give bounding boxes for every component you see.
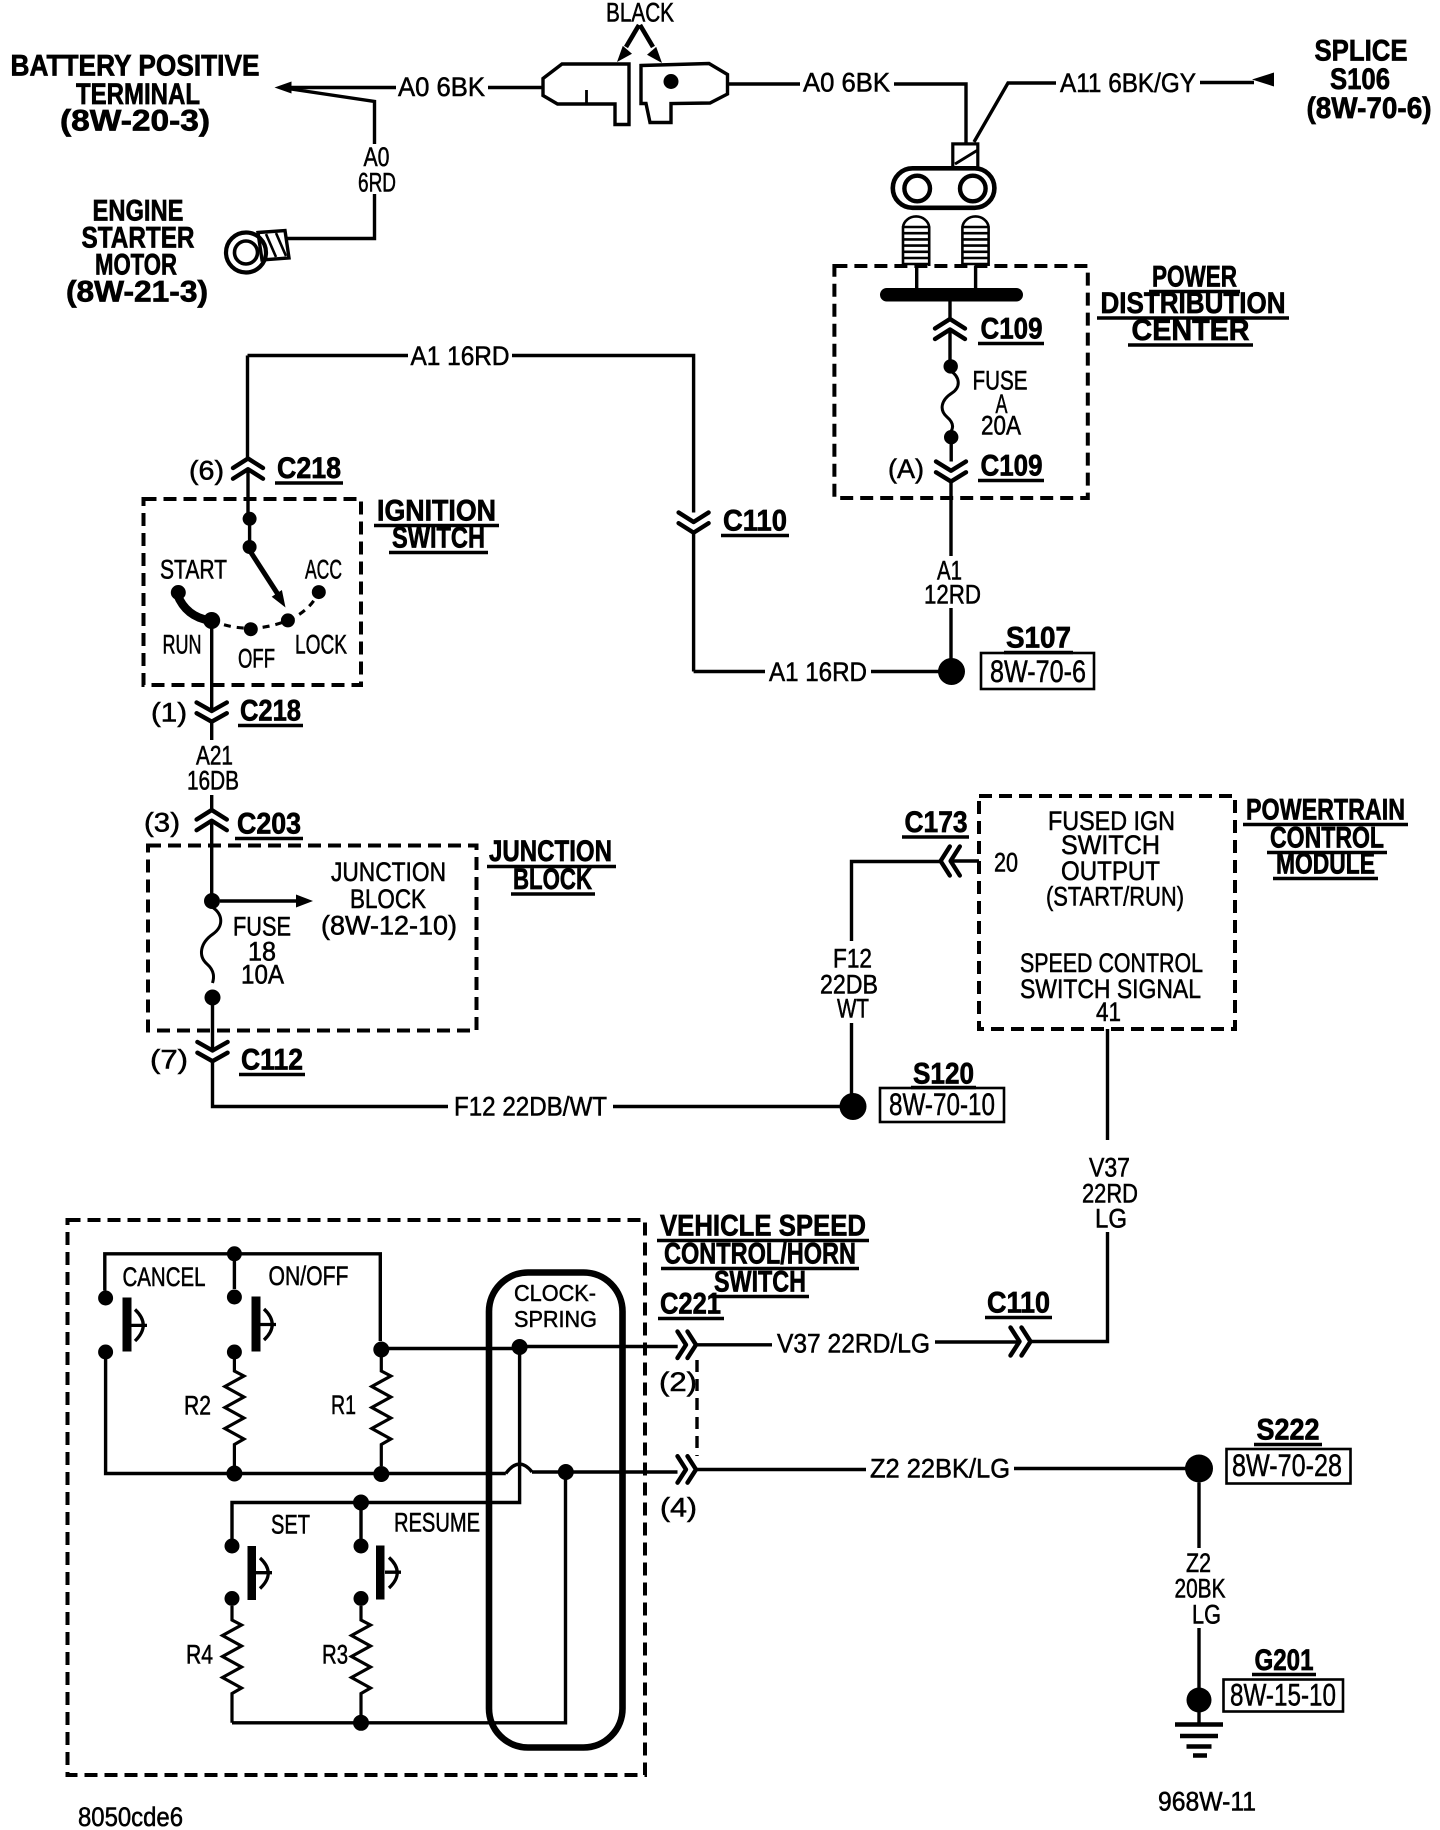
wire Z2 20BK LG <box>1197 1483 1200 1549</box>
node LOCK contact <box>281 613 295 627</box>
svg-text:C112: C112 <box>241 1044 303 1077</box>
resistor R3 <box>352 1606 371 1723</box>
svg-text:968W-11: 968W-11 <box>1158 1787 1256 1817</box>
svg-text:RESUME: RESUME <box>394 1508 480 1538</box>
ignition wiper arrow <box>250 551 279 596</box>
vehicle speed control switch dashed box <box>68 1220 646 1775</box>
svg-text:CENTER: CENTER <box>1132 314 1250 347</box>
reference box 8W-15-10 <box>1224 1680 1344 1712</box>
svg-text:41: 41 <box>1096 997 1121 1027</box>
svg-text:OFF: OFF <box>238 644 275 674</box>
svg-text:MODULE: MODULE <box>1276 848 1375 881</box>
wire V37 22RD/LG <box>935 1340 1020 1343</box>
svg-text:C110: C110 <box>723 505 787 538</box>
wire F12 22DB/WT <box>213 1061 449 1106</box>
node OFF contact <box>244 622 258 636</box>
wire A0 6RD to starter <box>285 194 375 239</box>
svg-text:(8W-70-6): (8W-70-6) <box>1307 92 1432 125</box>
wire into S107 <box>871 670 940 673</box>
junction block dashed box <box>148 846 477 1031</box>
svg-text:WT: WT <box>837 994 869 1024</box>
svg-text:10A: 10A <box>241 960 284 990</box>
node START contact <box>171 585 186 600</box>
bus bar <box>880 288 1023 302</box>
svg-text:16DB: 16DB <box>187 766 239 796</box>
wire A11 6BK/GY <box>974 83 1056 142</box>
wire to C173 <box>852 862 941 942</box>
wire A0 6RD diagonal <box>291 89 375 144</box>
wire into S120 <box>613 1105 840 1108</box>
arrowhead to splice S106 <box>1252 73 1274 87</box>
svg-text:A0 6BK: A0 6BK <box>803 68 890 98</box>
lower rail wire <box>232 1472 566 1723</box>
svg-text:20: 20 <box>994 848 1018 878</box>
svg-text:8W-15-10: 8W-15-10 <box>1230 1677 1336 1713</box>
clockspring outline <box>489 1273 623 1748</box>
ground G201 <box>1187 1688 1212 1713</box>
wire C109 to fuse <box>948 330 951 361</box>
svg-text:A1 16RD: A1 16RD <box>411 341 510 371</box>
wire into junction block <box>210 821 213 895</box>
splice S222 <box>1185 1455 1213 1483</box>
ignition switch contacts <box>243 512 257 526</box>
wire hop over junction wire <box>506 1464 532 1473</box>
connector C221 (2) <box>678 1332 697 1359</box>
wire RUN contact down <box>210 624 213 711</box>
wires from coils to bus bar <box>915 266 918 289</box>
switch CANCEL <box>98 1291 113 1306</box>
svg-text:G201: G201 <box>1255 1644 1314 1677</box>
reference box 8W-70-10 <box>880 1088 1004 1122</box>
ground symbol <box>1197 1712 1200 1725</box>
arrow to right connector half <box>640 25 653 47</box>
reference box 8W-70-6 <box>981 653 1094 689</box>
svg-text:C110: C110 <box>987 1287 1050 1320</box>
node on top rail <box>227 1246 242 1261</box>
wire to S107 <box>949 608 952 660</box>
svg-text:C218: C218 <box>277 452 341 485</box>
connector C221 (4) <box>678 1456 697 1483</box>
connector C110 (top) <box>679 513 709 533</box>
fuse 18 10A <box>201 907 220 983</box>
wire from C221 (2) <box>696 1343 772 1346</box>
wire V37 22RD LG from pin 41 <box>1106 1029 1109 1140</box>
svg-text:F12 22DB/WT: F12 22DB/WT <box>454 1092 607 1122</box>
svg-text:R4: R4 <box>186 1640 213 1670</box>
svg-text:SWITCH: SWITCH <box>714 1266 806 1299</box>
node RUN contact <box>203 612 220 629</box>
connector C221 dashed link <box>695 1360 698 1456</box>
wire into S222 <box>1014 1467 1186 1470</box>
svg-text:C218: C218 <box>240 695 301 728</box>
resistor R2 <box>225 1359 244 1466</box>
svg-text:BLACK: BLACK <box>606 0 674 28</box>
reference box 8W-70-28 <box>1227 1449 1351 1484</box>
wire R1 to clockspring junction <box>381 1347 520 1350</box>
switch ON/OFF <box>227 1290 242 1305</box>
wire C173 to PCM pin 20 <box>951 859 979 862</box>
svg-text:S222: S222 <box>1257 1414 1320 1447</box>
svg-text:S107: S107 <box>1006 622 1071 655</box>
wire A1 16RD to S107 <box>694 670 765 673</box>
svg-text:BLOCK: BLOCK <box>513 863 592 896</box>
connector C218 (6) <box>233 459 263 479</box>
connector C109 (A) <box>936 462 966 482</box>
in-line connector left half <box>543 64 629 125</box>
svg-text:A0 6BK: A0 6BK <box>398 72 485 102</box>
svg-text:C203: C203 <box>237 808 301 841</box>
connector C218 (1) <box>197 703 227 722</box>
svg-text:R1: R1 <box>331 1390 356 1420</box>
resistor R1 <box>373 1342 389 1358</box>
svg-text:LOCK: LOCK <box>295 630 347 660</box>
arrowhead to battery positive terminal <box>275 82 292 94</box>
svg-text:SET: SET <box>271 1510 310 1540</box>
svg-text:LG: LG <box>1095 1204 1127 1234</box>
node to lower rail <box>558 1464 574 1480</box>
svg-text:(8W-12-10): (8W-12-10) <box>321 911 457 941</box>
wiper contact arc START-RUN <box>177 594 210 621</box>
wire fuse to C109 (A) <box>950 444 953 462</box>
wire to G201 <box>1197 1628 1200 1690</box>
switch SET <box>225 1539 240 1554</box>
junction node <box>512 1339 528 1355</box>
svg-text:(3): (3) <box>144 808 180 838</box>
connector C109 (top) <box>935 319 965 339</box>
junction block node <box>204 893 220 909</box>
resistor R4 <box>223 1606 242 1723</box>
svg-text:(4): (4) <box>660 1493 697 1523</box>
svg-text:(START/RUN): (START/RUN) <box>1046 882 1184 912</box>
powertrain control module dashed box <box>979 796 1235 1029</box>
svg-text:ON/OFF: ON/OFF <box>269 1261 349 1291</box>
svg-text:8W-70-6: 8W-70-6 <box>990 653 1086 689</box>
wire down-left branch to C218 <box>246 356 249 459</box>
svg-text:8W-70-28: 8W-70-28 <box>1232 1447 1342 1483</box>
svg-text:RUN: RUN <box>163 630 202 660</box>
svg-text:CLOCK-: CLOCK- <box>514 1280 596 1306</box>
svg-text:CANCEL: CANCEL <box>123 1262 206 1292</box>
engine starter motor ring terminal <box>226 233 266 273</box>
dashed detent arc <box>212 592 319 628</box>
svg-text:JUNCTION: JUNCTION <box>331 857 446 887</box>
black dot on right half <box>664 74 679 89</box>
top rail wire <box>105 1254 381 1341</box>
wire V37 down to C110 <box>1031 1232 1108 1342</box>
svg-text:(8W-20-3): (8W-20-3) <box>60 105 210 138</box>
svg-text:12RD: 12RD <box>924 580 981 610</box>
eyelet terminal pair <box>893 168 995 208</box>
svg-text:Z2 22BK/LG: Z2 22BK/LG <box>870 1454 1010 1484</box>
svg-text:LG: LG <box>1192 1600 1221 1630</box>
svg-text:ACC: ACC <box>305 555 342 585</box>
splice S120 <box>840 1093 867 1120</box>
wire A1 16RD long run <box>248 354 409 357</box>
svg-text:20A: 20A <box>981 411 1021 441</box>
svg-text:(2): (2) <box>659 1367 697 1397</box>
svg-text:R3: R3 <box>322 1640 348 1670</box>
svg-text:8050cde6: 8050cde6 <box>78 1802 183 1830</box>
svg-text:SWITCH: SWITCH <box>392 522 485 555</box>
svg-text:(7): (7) <box>150 1045 188 1075</box>
wire to C203 <box>210 795 213 810</box>
wire A0 6BK right <box>728 82 801 85</box>
svg-text:A1 16RD: A1 16RD <box>769 657 867 687</box>
bottom rail (cancel/R2/R1 commons) <box>106 1359 506 1474</box>
fusible link coil right <box>962 216 988 266</box>
wire junction down to set/resume rail <box>232 1347 520 1539</box>
node for resume branch <box>353 1495 369 1511</box>
connector C110 (lower) <box>1011 1328 1031 1356</box>
svg-text:(A): (A) <box>888 454 924 484</box>
svg-text:A11 6BK/GY: A11 6BK/GY <box>1060 68 1196 98</box>
node ACC contact <box>312 585 326 599</box>
wire F12 22DB WT vertical <box>850 1023 853 1094</box>
arrow to left connector half <box>626 25 639 47</box>
fuse A 20A <box>944 359 958 373</box>
svg-text:BLOCK: BLOCK <box>350 884 426 914</box>
connector C112 <box>197 1042 227 1061</box>
wire A1 16RD down to C110 <box>512 356 694 513</box>
in-line connector right half <box>641 64 728 123</box>
svg-text:START: START <box>160 555 227 585</box>
wire bus bar to C109 <box>948 301 951 319</box>
svg-text:V37 22RD/LG: V37 22RD/LG <box>777 1329 930 1359</box>
svg-text:(1): (1) <box>151 698 187 728</box>
splice S107 <box>938 658 965 685</box>
svg-text:6RD: 6RD <box>358 168 396 198</box>
svg-text:C221: C221 <box>660 1288 721 1321</box>
ignition switch dashed box <box>144 499 362 685</box>
wire to splice S106 <box>1200 81 1254 84</box>
connector C203 <box>197 810 227 830</box>
arrow to junction block <box>220 899 297 902</box>
wire Z2 22BK/LG <box>696 1468 866 1471</box>
svg-text:(8W-21-3): (8W-21-3) <box>66 276 208 309</box>
wire A1 12RD <box>949 482 952 557</box>
wire A21 16DB <box>210 722 213 740</box>
svg-text:C109: C109 <box>981 313 1043 346</box>
wire C110 down to S107 <box>692 533 695 672</box>
connector C173 <box>941 847 960 876</box>
svg-text:SPRING: SPRING <box>514 1306 597 1332</box>
crimp splice <box>953 144 978 168</box>
svg-text:C173: C173 <box>905 806 968 839</box>
wire to crimp splice <box>894 84 966 143</box>
wire A0 6BK left <box>291 86 396 89</box>
wire fuse to C112 <box>211 1003 214 1051</box>
svg-text:8W-70-10: 8W-70-10 <box>889 1086 995 1122</box>
fusible link coil left <box>903 216 929 266</box>
svg-text:C109: C109 <box>981 450 1043 483</box>
power distribution center dashed box <box>834 266 1087 498</box>
svg-text:(6): (6) <box>189 456 224 486</box>
svg-text:R2: R2 <box>184 1391 211 1421</box>
wire into ignition switch <box>246 469 249 515</box>
switch RESUME <box>354 1539 369 1554</box>
